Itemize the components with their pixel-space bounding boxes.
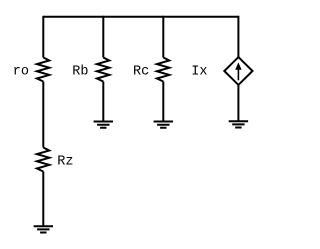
wire ro to Rz	[42, 82, 44, 148]
current source Ix diamond	[224, 57, 252, 85]
svg-text:Rb: Rb	[72, 64, 88, 79]
wire top horizontal bus	[43, 16, 238, 18]
ground Rc	[154, 122, 173, 128]
resistor Rb	[97, 58, 109, 82]
wire Rb branch top	[102, 16, 104, 58]
current source Ix arrow	[235, 62, 241, 80]
resistor ro	[37, 58, 49, 82]
ground Ix	[229, 121, 248, 127]
wire ro branch top	[42, 16, 44, 58]
wire Ix to ground	[237, 85, 239, 121]
wire Rc to ground	[162, 82, 164, 122]
wire Ix branch top	[237, 16, 239, 57]
resistor Rc	[157, 58, 169, 82]
labels group	[13, 64, 208, 169]
wire Rb to ground	[102, 82, 104, 122]
ground Rb	[94, 122, 113, 128]
svg-text:Rc: Rc	[133, 64, 149, 79]
resistor Rz	[37, 148, 49, 172]
svg-text:ro: ro	[13, 64, 29, 79]
svg-text:Ix: Ix	[191, 64, 207, 79]
wire Rz to ground	[42, 172, 44, 227]
ground left	[34, 226, 53, 232]
wire Rc branch top	[162, 16, 164, 58]
svg-text:Rz: Rz	[57, 154, 73, 169]
